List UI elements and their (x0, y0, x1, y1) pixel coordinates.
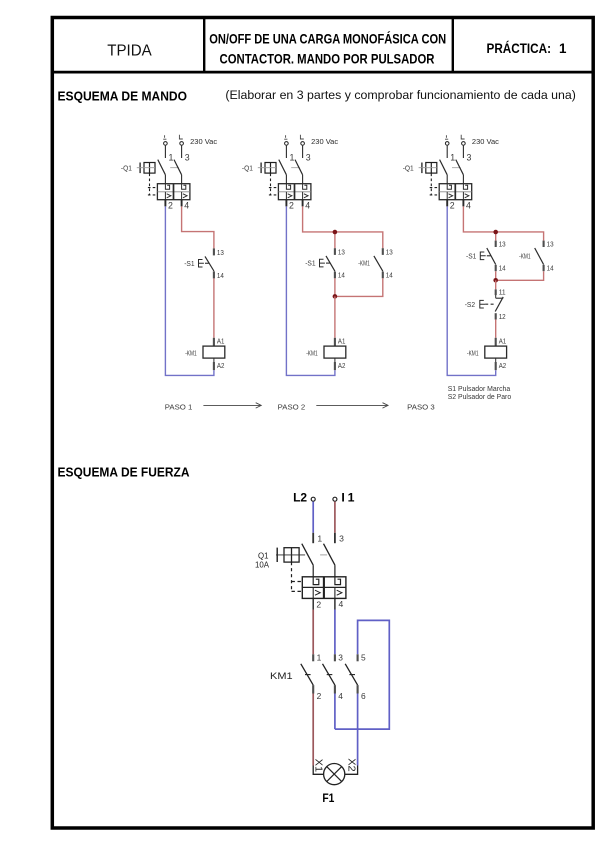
circuit 2: Q1 pole 2 contact blade (295, 160, 303, 175)
svg-text:11: 11 (499, 290, 506, 297)
circuit 3: wire terminal N to breaker pin 3 (462, 146, 464, 158)
fuerza: breaker pin stub 2 (312, 598, 314, 609)
circuit 3: pushbutton S2 actuator (480, 300, 485, 308)
fuerza: supply terminal L1 (333, 497, 337, 501)
circuit 1: breaker Q1 operator box (140, 163, 155, 174)
svg-text:1: 1 (559, 41, 567, 56)
fuerza: Q1 operator axis line (276, 554, 327, 556)
circuit 1: breaker pin stub 2 (164, 200, 166, 207)
circuit 2: pushbutton S1 actuator (320, 259, 325, 267)
circuit 2: coil terminal A1 (334, 338, 336, 346)
circuit 3: terminal mark L right (461, 135, 464, 139)
circuit 3: S2 terminal 11 (495, 289, 497, 295)
circuit 3: breaker pin stub 4 (462, 200, 464, 207)
circuit 1: thermal element pole 1 (165, 184, 169, 189)
circuit 1: wire S1 to coil A1 (red) (213, 278, 215, 337)
svg-text:230 Vac: 230 Vac (472, 139, 500, 146)
circuit 3: S1 actuator dashed link (487, 255, 491, 257)
circuit 1: Q1 operator axis line (137, 167, 179, 169)
svg-text:13: 13 (547, 241, 554, 248)
circuit 1: S1 terminal 13 (213, 248, 215, 255)
svg-text:4: 4 (338, 691, 343, 701)
svg-text:1: 1 (317, 533, 322, 543)
svg-text:I: I (341, 490, 344, 504)
svg-text:A2: A2 (338, 363, 346, 370)
circuit 2: Q1 trip linkage dashed (269, 174, 279, 195)
svg-text:14: 14 (547, 266, 554, 273)
circuit 3: supply terminal N (462, 142, 466, 146)
circuit 3: wire pole 2 blade to trip box (462, 175, 464, 184)
circuit 2: wire pole 1 blade to trip box (285, 175, 287, 184)
circuit 1: breaker pin stub 4 (181, 200, 183, 207)
circuit 3: wire coil A2 return (blue) (447, 206, 496, 375)
svg-text:-S2: -S2 (465, 302, 475, 309)
circuit 2: terminal mark L left (284, 135, 287, 139)
circuit 2: Q1 pole 1 contact blade (279, 160, 287, 175)
circuit 3: wire terminal L to breaker pin 1 (446, 146, 448, 158)
circuit 2: wire node A to S1 (red) (334, 232, 336, 248)
fuerza: KM1 pole blade 3-4 (323, 664, 335, 685)
svg-text:2: 2 (317, 691, 322, 701)
svg-text:4: 4 (184, 201, 189, 211)
svg-text:3: 3 (338, 653, 343, 663)
circuit 3: Q1 pole 2 contact blade (456, 160, 464, 175)
fuerza: Q1 pole 1 contact blade (302, 544, 313, 565)
svg-text:14: 14 (386, 273, 393, 280)
circuit 2: junction node A (333, 230, 338, 235)
fuerza: breaker pin stub 4 (334, 598, 336, 609)
svg-text:-S1: -S1 (466, 253, 476, 260)
circuit 3: wire S1 14 to node B (red) (495, 271, 497, 280)
circuit 3: coil terminal A1 (495, 338, 497, 346)
fuerza: wire KM1 2 to lamp X1 (red) (312, 694, 314, 766)
svg-text:12: 12 (499, 314, 506, 321)
svg-text:KM1: KM1 (270, 671, 293, 681)
svg-text:2: 2 (450, 201, 455, 211)
circuit 2: S1 terminal 14 (334, 272, 336, 279)
circuit 2: wire node B to coil A1 (red) (334, 296, 336, 337)
circuit 3: breaker pin stub 2 (446, 200, 448, 207)
circuit 1: pushbutton S1 contact blade (205, 256, 214, 271)
svg-text:-KM1: -KM1 (185, 350, 197, 357)
svg-text:-KM1: -KM1 (467, 350, 479, 357)
circuit 2: Q1 thermal-magnetic trip box (278, 184, 311, 200)
circuit 3: S2 actuator dashed link (485, 303, 494, 305)
svg-text:S1 Pulsador Marcha: S1 Pulsador Marcha (448, 386, 511, 393)
svg-text:-KM1: -KM1 (358, 261, 370, 268)
circuit 1: wire coil A2 return (blue) (165, 206, 214, 375)
circuit 1: Q1 pole 2 contact blade (174, 160, 182, 175)
circuit 1: wire terminal L to breaker pin 1 (164, 146, 166, 158)
circuit 3: junction node A (493, 230, 498, 235)
fuerza: lamp F1 (324, 764, 345, 785)
svg-text:ON/OFF DE UNA CARGA MONOFÁSICA: ON/OFF DE UNA CARGA MONOFÁSICA CON (209, 32, 446, 47)
fuerza: KM1 pole terminal 6 (357, 685, 359, 693)
svg-text:X1: X1 (312, 759, 323, 773)
circuit 2: pushbutton S1 contact blade (326, 256, 335, 271)
circuit 1: S1 actuator dashed link (205, 262, 209, 264)
circuit 3: junction node B (493, 278, 498, 283)
circuit 2: terminal mark L right (300, 135, 303, 139)
circuit 1: contactor coil KM1 (203, 346, 225, 358)
svg-text:3: 3 (306, 152, 311, 162)
circuit 1: terminal mark L right (179, 135, 182, 139)
fuerza: magnetic element pole 2 (335, 587, 342, 598)
circuit 1: supply terminal N (180, 142, 184, 146)
circuit 3: magnetic element pole 1 (447, 192, 453, 200)
header divider 1 (203, 18, 205, 73)
svg-text:TPIDA: TPIDA (107, 43, 152, 60)
svg-text:4: 4 (339, 599, 344, 609)
circuit 1: wire pole 2 blade to trip box (181, 175, 183, 184)
circuit 3: wire node B to S2 (red) (495, 280, 497, 289)
fuerza: magnetic element pole 1 (313, 587, 320, 598)
circuit 2: wire terminal L to breaker pin 1 (285, 146, 287, 158)
svg-text:ESQUEMA DE MANDO: ESQUEMA DE MANDO (58, 88, 188, 103)
svg-text:13: 13 (338, 249, 345, 256)
fuerza: wire pole 2 blade to trip box (334, 565, 336, 577)
svg-text:14: 14 (338, 273, 345, 280)
circuit 2: wire breaker pin 4 to node A (red) (303, 206, 383, 248)
fuerza: Q1 pole 2 contact blade (324, 544, 335, 565)
circuit 3: S2 terminal 12 (495, 313, 497, 319)
fuerza: wire L2 to breaker pin 1 (blue) (312, 502, 314, 544)
circuit 2: KM1 aux terminal 14 (382, 272, 384, 279)
svg-text:1: 1 (317, 653, 322, 663)
circuit 2: junction node B (333, 294, 338, 299)
circuit 1: magnetic element pole 2 (182, 192, 188, 200)
fuerza: Q1 trip linkage dashed (292, 562, 302, 591)
circuit 1: Q1 thermal-magnetic trip box (157, 184, 190, 200)
fuerza: breaker Q1 operator box (277, 548, 299, 563)
fuerza: label L1 (341, 490, 354, 504)
circuit 3: wire S2 to coil A1 (red) (495, 319, 497, 337)
circuit 1: coil terminal A2 (213, 358, 215, 370)
circuit 3: wire pole 1 blade to trip box (446, 175, 448, 184)
svg-text:230 Vac: 230 Vac (311, 139, 339, 146)
svg-text:3: 3 (185, 152, 190, 162)
svg-text:X2: X2 (345, 758, 356, 772)
fuerza: KM1 pole blade 5-6 (345, 664, 357, 685)
svg-text:3: 3 (467, 152, 472, 162)
svg-text:CONTACTOR. MANDO POR PULSADOR: CONTACTOR. MANDO POR PULSADOR (220, 52, 435, 67)
fuerza: KM1 linkage dash pole 5 (349, 674, 355, 676)
circuit 1: coil terminal A1 (213, 338, 215, 346)
circuit 2: S1 terminal 13 (334, 248, 336, 255)
svg-text:-S1: -S1 (184, 261, 194, 268)
circuit 1: thermal element pole 2 (182, 184, 186, 189)
svg-text:2: 2 (289, 201, 294, 211)
svg-text:14: 14 (217, 273, 224, 280)
header divider 2 (452, 18, 454, 73)
circuit 3: pushbutton S1 actuator (480, 252, 485, 260)
svg-text:13: 13 (386, 249, 393, 256)
circuit 1: Q1 pole 1 contact blade (158, 160, 166, 175)
circuit 3: Q1 trip linkage dashed (430, 174, 440, 195)
fuerza: thermal element pole 1 (313, 577, 319, 584)
svg-text:14: 14 (499, 266, 506, 273)
svg-text:-Q1: -Q1 (121, 165, 132, 172)
circuit 1: magnetic element pole 1 (165, 192, 171, 200)
svg-text:S2 Pulsador de Paro: S2 Pulsador de Paro (448, 394, 512, 401)
circuit 3: wire node A to S1 (red) (495, 232, 497, 241)
svg-text:4: 4 (466, 201, 471, 211)
fuerza: KM1 pole terminal 5 (357, 654, 359, 661)
circuit 3: thermal element pole 2 (463, 184, 467, 189)
circuit 3: S1 terminal 13 (495, 241, 497, 247)
svg-text:230 Vac: 230 Vac (190, 139, 218, 146)
fuerza: wire KM1 4 to KM1 5 loop (blue) (335, 620, 389, 729)
svg-text:ESQUEMA DE FUERZA: ESQUEMA DE FUERZA (58, 464, 190, 479)
circuit 3: thermal element pole 1 (447, 184, 451, 189)
svg-text:2: 2 (316, 600, 321, 610)
fuerza: KM1 pole terminal 4 (334, 685, 336, 693)
circuit 3: pushbutton S1 contact blade (487, 248, 496, 265)
svg-text:2: 2 (168, 201, 173, 211)
circuit 3: breaker Q1 operator box (422, 163, 437, 174)
circuit 3: pushbutton S2 NC contact (495, 295, 503, 312)
svg-text:3: 3 (339, 533, 344, 543)
circuit 3: Q1 thermal-magnetic trip box (439, 184, 472, 200)
fuerza: KM1 linkage dash pole 3 (327, 674, 333, 676)
arrow paso 2 to paso 3 (316, 403, 388, 408)
circuit 1: terminal mark L left (163, 135, 166, 139)
circuit 2: supply terminal N (301, 142, 305, 146)
fuerza: wire breaker 4 to KM1 3 (blue) (334, 610, 336, 655)
svg-text:1: 1 (290, 152, 295, 162)
fuerza: wire KM1 6 to lamp X2 (blue) (357, 694, 359, 766)
circuit 2: Q1 operator axis line (258, 167, 300, 169)
svg-text:4: 4 (305, 201, 310, 211)
fuerza: wire KM1 4 down (blue) (334, 694, 336, 730)
fuerza: KM1 pole terminal 2 (312, 685, 314, 693)
fuerza: KM1 pole blade 1-2 (301, 664, 313, 685)
svg-text:5: 5 (361, 653, 366, 663)
circuit 1: wire pole 1 blade to trip box (164, 175, 166, 184)
fuerza: thermal element pole 2 (335, 577, 341, 584)
circuit 1: pushbutton S1 actuator (199, 259, 204, 267)
fuerza: supply terminal L2 (311, 497, 315, 501)
circuit 2: wire S1 14 to node B (red) (334, 278, 336, 296)
circuit 1: wire terminal N to breaker pin 3 (181, 146, 183, 158)
circuit 2: coil terminal A2 (334, 358, 336, 370)
circuit 2: wire coil A2 return (blue) (286, 206, 335, 375)
circuit 3: Q1 operator axis line (419, 167, 461, 169)
arrow paso 1 to paso 2 (203, 403, 261, 408)
fuerza: KM1 pole terminal 3 (334, 654, 336, 661)
svg-text:-S1: -S1 (305, 261, 315, 268)
svg-text:13: 13 (217, 250, 224, 257)
circuit 2: supply terminal L (285, 142, 289, 146)
circuit 2: thermal element pole 2 (303, 184, 307, 189)
circuit 3: Q1 pole 1 contact blade (440, 160, 448, 175)
fuerza: KM1 linkage dash pole 1 (305, 674, 311, 676)
svg-text:A2: A2 (217, 363, 225, 370)
svg-text:1: 1 (450, 152, 455, 162)
circuit 1: supply terminal L (164, 142, 168, 146)
fuerza: Q1 thermal-magnetic trip box (302, 577, 346, 599)
circuit 2: breaker pin stub 2 (285, 200, 287, 207)
circuit 2: breaker Q1 operator box (261, 163, 276, 174)
circuit 3: contact KM1 aux blade (535, 248, 544, 265)
fuerza: wire breaker 2 to KM1 1 (red) (312, 610, 314, 655)
circuit 2: wire terminal N to breaker pin 3 (302, 146, 304, 158)
svg-text:PASO 1: PASO 1 (165, 402, 193, 411)
circuit 3: supply terminal L (445, 142, 449, 146)
circuit 2: KM1 aux terminal 13 (382, 248, 384, 255)
circuit 3: magnetic element pole 2 (463, 192, 469, 200)
svg-text:6: 6 (361, 691, 366, 701)
circuit 2: wire KM1 aux to node B (red) (335, 278, 383, 296)
fuerza: KM1 pole terminal 1 (312, 654, 314, 661)
circuit 3: wire breaker pin 4 to node A (red) (463, 206, 543, 240)
svg-text:A2: A2 (499, 363, 507, 370)
circuit 2: magnetic element pole 2 (303, 192, 309, 200)
circuit 1: wire breaker pin 4 to S1 (red) (182, 206, 214, 248)
svg-text:13: 13 (499, 241, 506, 248)
svg-text:-Q1: -Q1 (403, 165, 414, 172)
svg-text:-Q1: -Q1 (242, 165, 253, 172)
circuit 2: contactor coil KM1 (324, 346, 346, 358)
circuit 1: Q1 trip linkage dashed (148, 174, 158, 195)
svg-text:-KM1: -KM1 (519, 253, 531, 260)
svg-text:PASO 2: PASO 2 (278, 402, 306, 411)
circuit 3: KM1 aux terminal 13 (543, 241, 545, 247)
circuit 3: coil terminal A2 (495, 358, 497, 370)
circuit 2: wire pole 2 blade to trip box (302, 175, 304, 184)
circuit 2: magnetic element pole 1 (286, 192, 292, 200)
svg-text:1: 1 (169, 152, 174, 162)
svg-text:PRÁCTICA:: PRÁCTICA: (487, 41, 552, 56)
header bottom rule (52, 71, 593, 74)
fuerza: lamp lead X1 (black) (313, 766, 323, 775)
svg-text:-KM1: -KM1 (306, 350, 318, 357)
svg-text:A1: A1 (217, 339, 225, 346)
circuit 3: S1 terminal 14 (495, 265, 497, 271)
circuit 3: KM1 aux terminal 14 (543, 265, 545, 271)
svg-text:F1: F1 (322, 791, 334, 805)
svg-text:A1: A1 (338, 339, 346, 346)
svg-text:L2: L2 (293, 490, 307, 504)
circuit 1: S1 terminal 14 (213, 271, 215, 278)
fuerza: lamp lead X2 (black) (345, 766, 358, 775)
circuit 2: contact KM1 aux blade (374, 256, 383, 271)
circuit 2: S1 actuator dashed link (326, 262, 330, 264)
svg-text:A1: A1 (499, 339, 507, 346)
circuit 2: breaker pin stub 4 (302, 200, 304, 207)
circuit 3: wire KM1 aux to node B (red) (496, 271, 544, 280)
svg-text:10A: 10A (255, 560, 269, 570)
svg-text:(Elaborar en 3 partes y compro: (Elaborar en 3 partes y comprobar funcio… (225, 88, 576, 102)
circuit 3: terminal mark L left (445, 135, 448, 139)
circuit 3: contactor coil KM1 (485, 346, 507, 358)
fuerza: wire pole 1 blade to trip box (312, 565, 314, 577)
fuerza: wire L1 to breaker pin 3 (red) (334, 502, 336, 544)
circuit 2: thermal element pole 1 (286, 184, 290, 189)
svg-text:1: 1 (348, 490, 355, 504)
svg-text:PASO 3: PASO 3 (407, 402, 435, 411)
